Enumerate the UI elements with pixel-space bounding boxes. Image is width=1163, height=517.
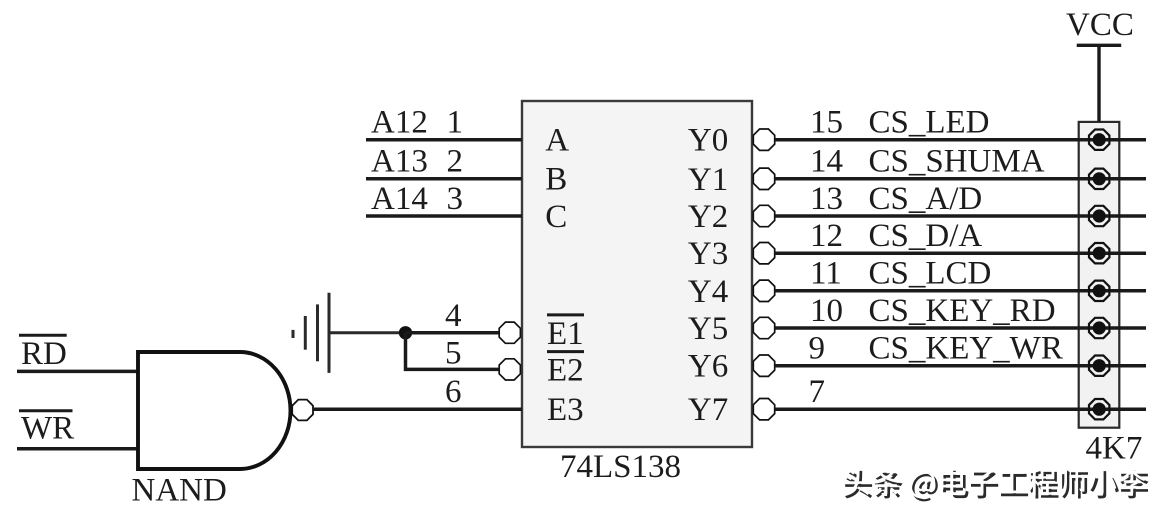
- svg-text:CS_D/A: CS_D/A: [869, 218, 983, 254]
- op-amp U1 74LS138 decoder body: [522, 101, 752, 447]
- pin E1 inversion bubble: [499, 322, 520, 343]
- svg-text:NAND: NAND: [132, 473, 227, 509]
- wire A12 to pin 1: [366, 138, 522, 142]
- wire Y1 output to RN1: [775, 177, 1146, 181]
- NAND output inversion bubble: [292, 400, 313, 421]
- pin Y0 inversion bubble: [753, 129, 774, 150]
- svg-text:E3: E3: [547, 392, 584, 428]
- pin Y2 inversion bubble: [753, 205, 774, 226]
- pin Y4 inversion bubble: [753, 280, 774, 301]
- wire junction to pin 4 (E1): [406, 331, 500, 335]
- svg-text:E2: E2: [547, 352, 584, 388]
- svg-text:Y2: Y2: [688, 199, 728, 235]
- svg-text:Y7: Y7: [688, 392, 728, 428]
- svg-text:CS_KEY_RD: CS_KEY_RD: [869, 293, 1056, 329]
- pin E2 inversion bubble: [499, 359, 520, 380]
- wire WR to NAND input: [17, 447, 139, 451]
- RN1 pin dot row 8: [1089, 399, 1109, 419]
- wire Y2 output to RN1: [775, 214, 1146, 218]
- wire Y0 output to RN1: [775, 138, 1146, 142]
- junction node dot: [399, 326, 412, 339]
- svg-text:CS_SHUMA: CS_SHUMA: [869, 144, 1045, 180]
- RN1 pin dot row 4: [1089, 243, 1109, 263]
- wire Y7 output to RN1: [775, 407, 1146, 411]
- svg-text:15: 15: [810, 105, 843, 141]
- power VCC bar: [1077, 44, 1122, 47]
- svg-text:12: 12: [810, 218, 843, 254]
- pin Y1 inversion bubble: [753, 168, 774, 189]
- svg-text:4: 4: [445, 298, 462, 334]
- svg-text:CS_KEY_WR: CS_KEY_WR: [869, 331, 1063, 367]
- wire RD to NAND input: [17, 370, 139, 374]
- svg-text:11: 11: [810, 256, 842, 292]
- wire ground to junction: [330, 331, 406, 334]
- svg-text:6: 6: [445, 374, 462, 410]
- svg-text:A13: A13: [371, 144, 428, 180]
- svg-text:A: A: [545, 123, 569, 159]
- wire Y5 output to RN1: [775, 326, 1146, 330]
- svg-text:A12: A12: [371, 105, 428, 141]
- RN1 pin dot row 7: [1089, 356, 1109, 376]
- svg-text:VCC: VCC: [1066, 7, 1134, 43]
- resistor network RN1 body: [1079, 122, 1120, 428]
- svg-text:E1: E1: [547, 316, 584, 352]
- pin Y6 inversion bubble: [753, 355, 774, 376]
- svg-text:7: 7: [809, 374, 826, 410]
- svg-text:CS_LED: CS_LED: [869, 105, 990, 141]
- svg-text:Y5: Y5: [688, 311, 728, 347]
- wire NAND output to pin E3: [313, 408, 522, 412]
- svg-text:A14: A14: [371, 181, 428, 217]
- wire A13 to pin 2: [366, 177, 522, 181]
- svg-text:Y4: Y4: [688, 274, 728, 310]
- svg-text:13: 13: [810, 181, 843, 217]
- wire Y4 output to RN1: [775, 289, 1146, 293]
- ground (signal ground, rotated): [293, 293, 329, 373]
- svg-text:WR: WR: [21, 410, 74, 446]
- pin Y7 inversion bubble: [753, 399, 774, 420]
- svg-text:CS_LCD: CS_LCD: [869, 256, 992, 292]
- svg-text:Y1: Y1: [688, 162, 728, 198]
- wire A14 to pin 3: [366, 214, 522, 218]
- RN1 pin dot row 6: [1089, 318, 1109, 338]
- svg-text:74LS138: 74LS138: [560, 449, 681, 485]
- watermark 头条@电子工程师小李: [842, 468, 1148, 502]
- wire Y6 output to RN1: [775, 364, 1146, 368]
- svg-text:4K7: 4K7: [1086, 430, 1143, 466]
- svg-text:Y6: Y6: [688, 349, 728, 385]
- svg-text:B: B: [545, 162, 567, 198]
- pin Y5 inversion bubble: [753, 317, 774, 338]
- wire junction to pin 5 (E2): [406, 333, 500, 370]
- svg-text:14: 14: [810, 144, 843, 180]
- pin Y3 inversion bubble: [753, 243, 774, 264]
- svg-text:CS_A/D: CS_A/D: [869, 181, 983, 217]
- RN1 pin dot row 2: [1089, 169, 1109, 189]
- wire VCC to RN1: [1097, 45, 1100, 122]
- NAND gate U2 body: [138, 352, 291, 469]
- RN1 pin dot row 1: [1089, 130, 1109, 150]
- svg-text:10: 10: [810, 293, 843, 329]
- svg-text:Y0: Y0: [688, 123, 728, 159]
- svg-text:9: 9: [809, 331, 826, 367]
- svg-text:3: 3: [447, 181, 464, 217]
- svg-text:RD: RD: [21, 336, 67, 372]
- svg-text:2: 2: [447, 144, 464, 180]
- svg-text:1: 1: [447, 105, 464, 141]
- svg-text:5: 5: [445, 336, 462, 372]
- RN1 pin dot row 5: [1089, 281, 1109, 301]
- wire Y3 output to RN1: [775, 251, 1146, 255]
- svg-text:C: C: [545, 199, 567, 235]
- svg-text:Y3: Y3: [688, 236, 728, 272]
- RN1 pin dot row 3: [1089, 206, 1109, 226]
